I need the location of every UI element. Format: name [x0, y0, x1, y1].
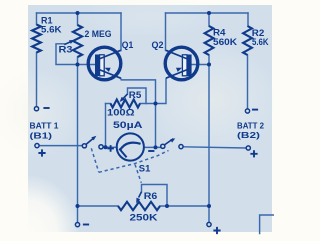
svg-text:250K: 250K	[130, 211, 158, 222]
svg-text:BATT 2: BATT 2	[237, 121, 264, 131]
svg-text:BATT 1: BATT 1	[30, 121, 59, 131]
svg-text:5.6K: 5.6K	[41, 24, 62, 35]
svg-text:R3: R3	[59, 44, 73, 55]
svg-text:100Ω: 100Ω	[107, 106, 135, 117]
svg-text:(B2): (B2)	[237, 130, 260, 140]
svg-text:5.6K: 5.6K	[252, 36, 269, 47]
svg-text:50µA: 50µA	[113, 119, 143, 130]
svg-text:2 MEG: 2 MEG	[85, 28, 112, 39]
svg-text:R5: R5	[129, 89, 142, 100]
svg-text:R6: R6	[144, 190, 158, 201]
svg-text:(B1): (B1)	[30, 130, 53, 140]
svg-text:Q1: Q1	[122, 39, 134, 50]
svg-text:Q2: Q2	[152, 39, 164, 50]
svg-text:560K: 560K	[213, 36, 237, 47]
svg-text:S1: S1	[139, 162, 151, 173]
